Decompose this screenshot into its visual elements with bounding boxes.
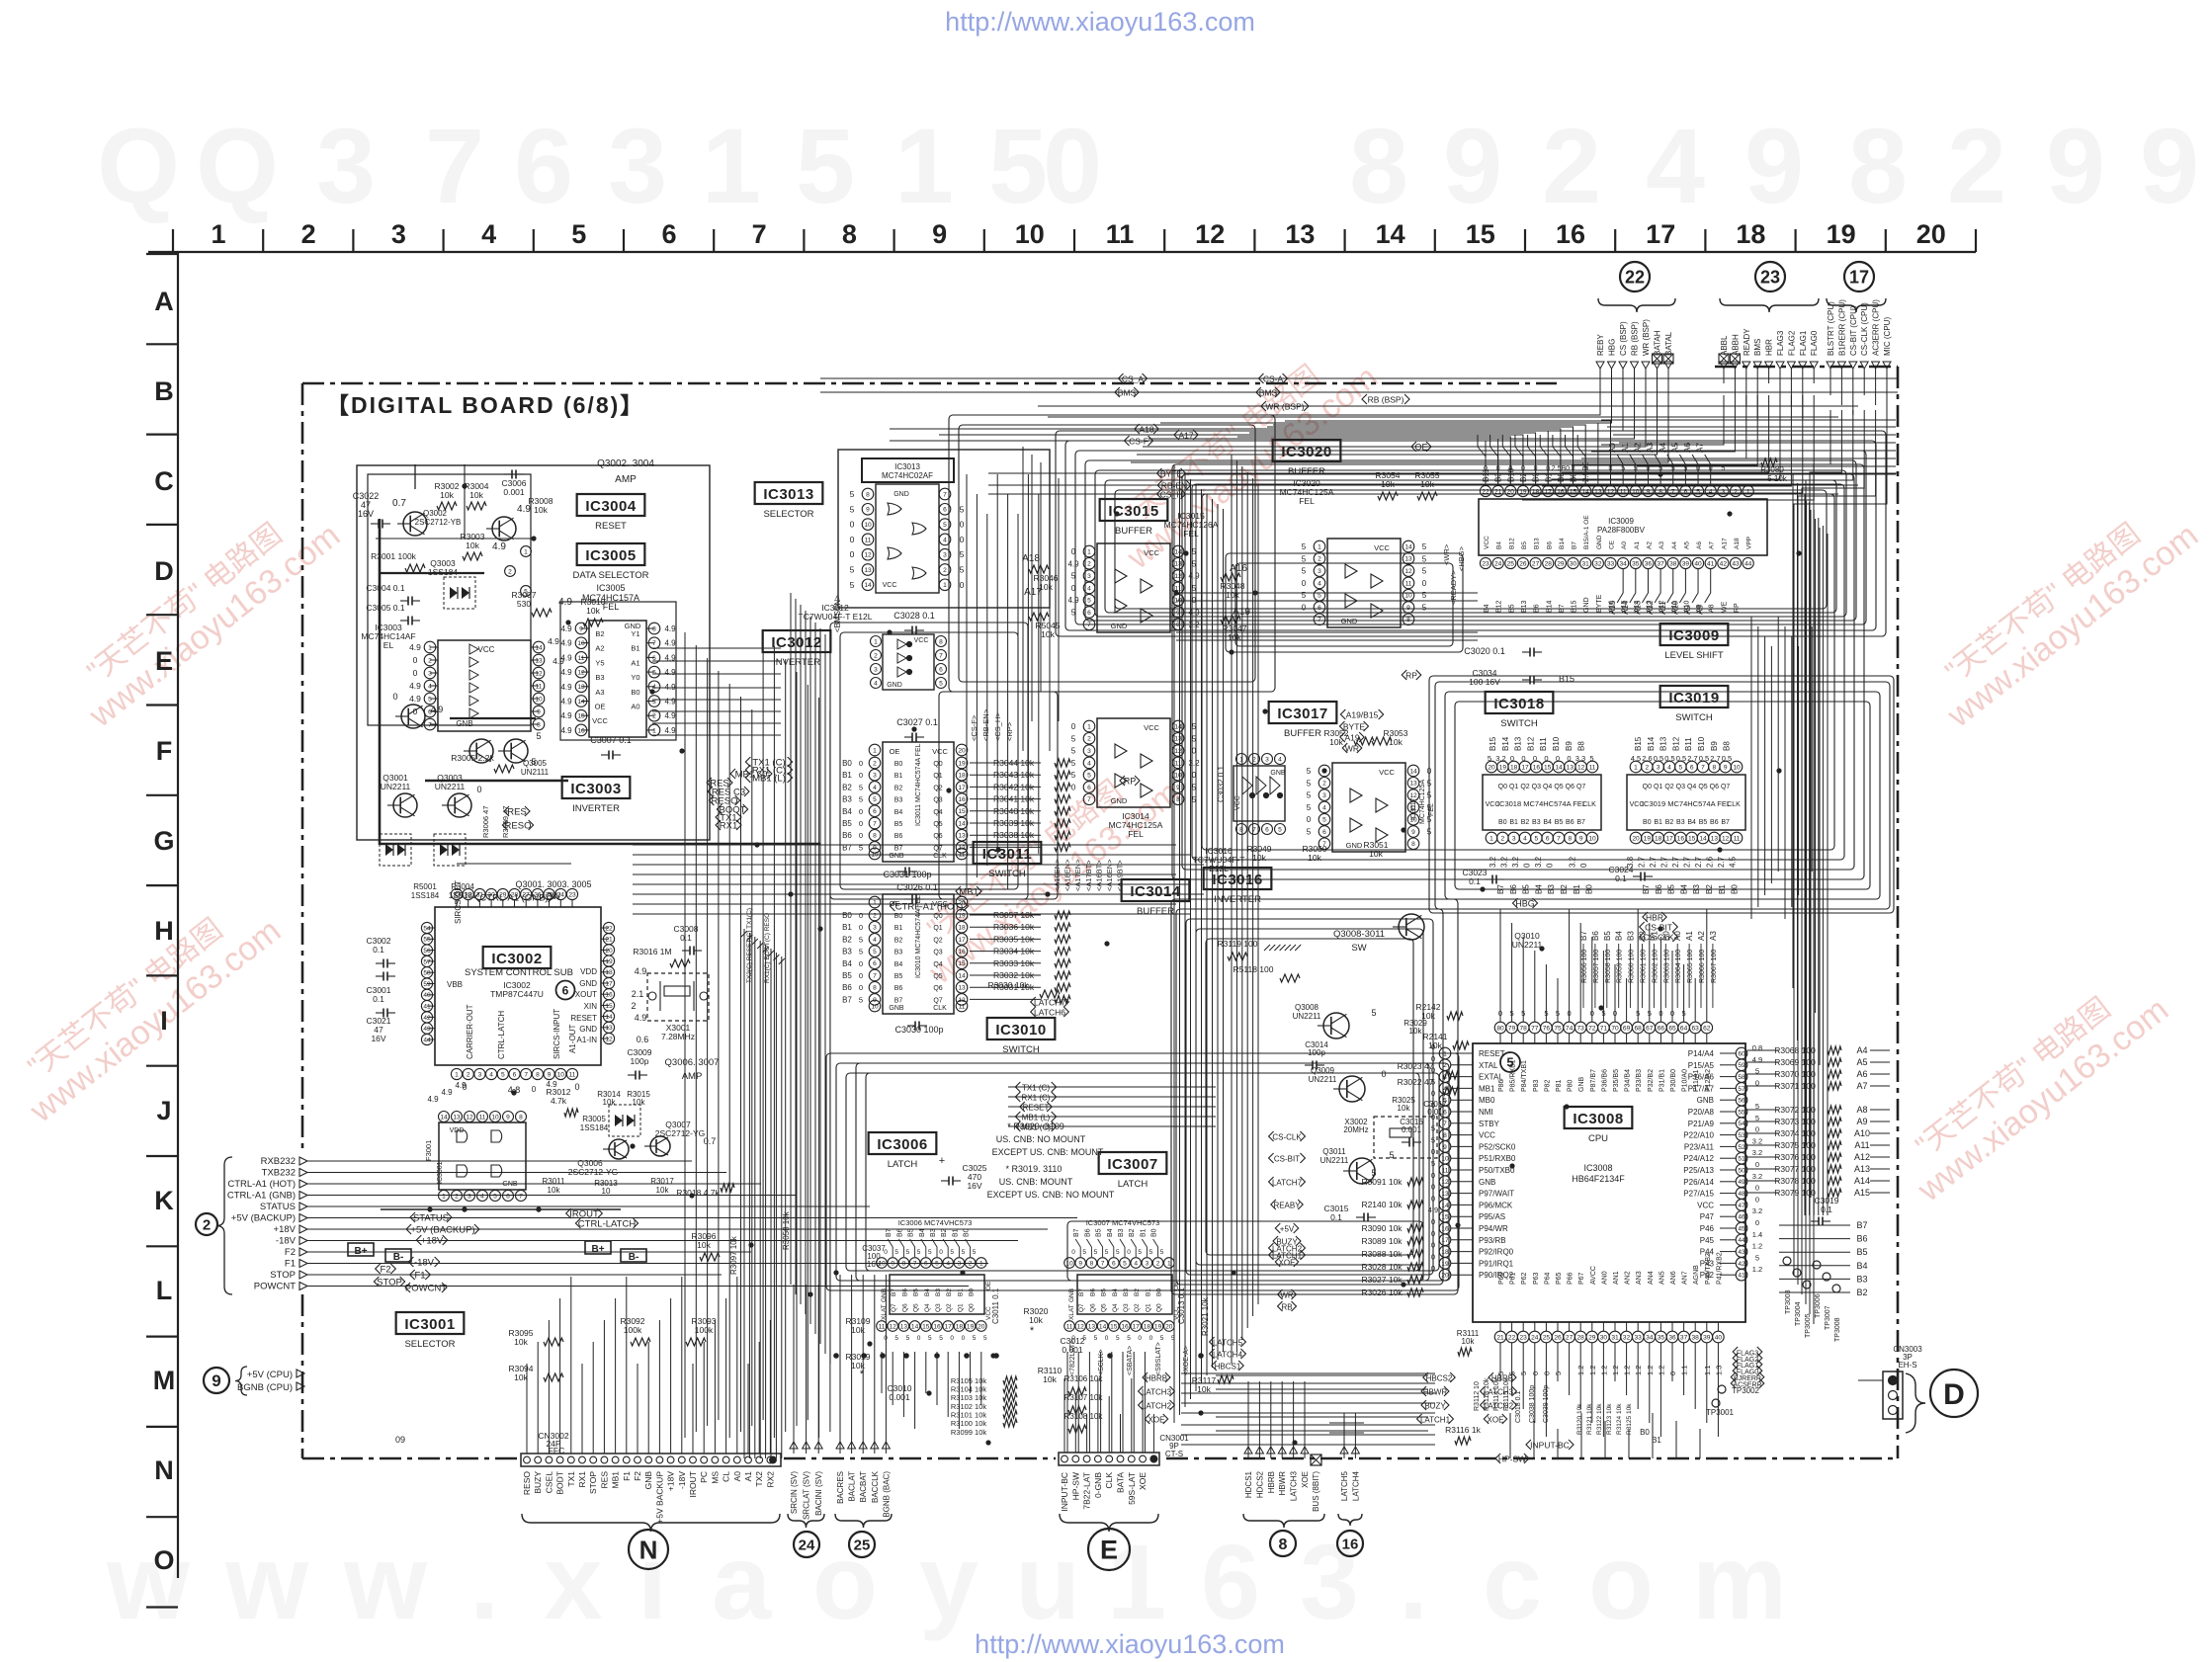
svg-text:R3097 10k: R3097 10k: [729, 1235, 738, 1275]
svg-text:A1: A1: [1634, 541, 1641, 549]
svg-text:7: 7: [1101, 1260, 1105, 1267]
svg-text:F2: F2: [380, 1264, 390, 1275]
svg-text:Q0: Q0: [969, 1303, 976, 1312]
svg-text:3.2: 3.2: [1752, 1172, 1762, 1181]
svg-text:4: 4: [873, 937, 877, 944]
svg-text:CLK: CLK: [1104, 1472, 1114, 1489]
svg-text:63: 63: [1692, 1025, 1700, 1032]
svg-text:3.2: 3.2: [1495, 754, 1505, 763]
svg-text:2.7: 2.7: [1687, 754, 1697, 763]
svg-text:B0: B0: [842, 911, 852, 920]
svg-text:IC3019 MC74HC574A FEL: IC3019 MC74HC574A FEL: [1642, 799, 1731, 808]
svg-text:38: 38: [1669, 560, 1677, 567]
svg-text:B7: B7: [842, 995, 852, 1004]
svg-text:0: 0: [413, 655, 418, 665]
svg-text:4.9: 4.9: [1067, 559, 1079, 568]
svg-text:0: 0: [939, 1249, 943, 1256]
svg-text:B4: B4: [919, 1228, 926, 1237]
svg-text:BATAH: BATAH: [1654, 330, 1662, 356]
svg-text:B1: B1: [1654, 819, 1662, 826]
svg-text:RX2: RX2: [765, 1471, 775, 1488]
svg-text:y: y: [919, 1522, 978, 1641]
svg-text:RESO: RESO: [505, 820, 532, 831]
transistor Q3010: [1399, 914, 1424, 940]
svg-text:19: 19: [1499, 764, 1507, 771]
svg-text:GND: GND: [893, 491, 909, 498]
svg-text:P15/A5: P15/A5: [1688, 1061, 1715, 1070]
svg-text:29: 29: [1557, 560, 1565, 567]
svg-text:9: 9: [866, 507, 870, 514]
svg-text:ACSERR: ACSERR: [1733, 1381, 1761, 1388]
svg-text:C3011 0.1: C3011 0.1: [991, 1288, 1000, 1324]
svg-text:36: 36: [1645, 560, 1653, 567]
svg-text:9: 9: [212, 1371, 220, 1390]
svg-text:B13: B13: [1534, 538, 1541, 549]
svg-text:B4: B4: [842, 807, 852, 816]
label IC3016: [1204, 868, 1272, 889]
svg-text:BACINI (SV): BACINI (SV): [814, 1471, 823, 1516]
svg-text:14: 14: [1174, 723, 1182, 730]
svg-text:2.1: 2.1: [632, 989, 644, 999]
svg-text:MIC (CPU): MIC (CPU): [1883, 317, 1892, 356]
svg-text:B2: B2: [941, 1228, 948, 1237]
svg-text:<A16EN>: <A16EN>: [1105, 859, 1114, 891]
svg-text:2: 2: [1322, 781, 1326, 788]
svg-text:REBY: REBY: [1596, 334, 1605, 356]
svg-text:50: 50: [1738, 1167, 1745, 1174]
connector CN3002: [395, 1277, 781, 1524]
svg-text:FEL: FEL: [1299, 496, 1315, 506]
svg-text:P86: P86: [1498, 1079, 1505, 1092]
svg-text:IC3010 MC74HC574A FEL: IC3010 MC74HC574A FEL: [915, 895, 922, 978]
svg-text:0: 0: [476, 785, 481, 794]
svg-text:0: 0: [960, 580, 965, 590]
svg-text:IC3002: IC3002: [491, 951, 542, 967]
svg-text:MS: MS: [710, 1471, 720, 1484]
svg-text:65: 65: [1668, 1025, 1676, 1032]
transistor Q3001b: [401, 705, 425, 728]
svg-text:2: 2: [467, 1071, 470, 1078]
svg-text:15: 15: [605, 1003, 613, 1010]
svg-text:4.9: 4.9: [455, 1081, 467, 1090]
svg-text:13: 13: [1711, 835, 1719, 842]
label IC3011: [974, 842, 1042, 864]
svg-text:R3058 100: R3058 100: [1605, 950, 1612, 983]
svg-text:0: 0: [1302, 579, 1307, 588]
svg-text:B7: B7: [1576, 819, 1585, 826]
svg-text:0: 0: [962, 1335, 966, 1342]
svg-text:CLK: CLK: [933, 1005, 947, 1012]
svg-text:FEL: FEL: [603, 602, 620, 612]
svg-text:B14: B14: [1647, 736, 1656, 751]
svg-text:6: 6: [506, 1193, 510, 1200]
circled 8: [1270, 1531, 1296, 1556]
svg-text:10k: 10k: [656, 1186, 670, 1195]
svg-text:PA28F800BV: PA28F800BV: [1597, 526, 1646, 535]
svg-text:69: 69: [1623, 1025, 1631, 1032]
svg-text:16: 16: [958, 949, 966, 956]
svg-text:6: 6: [873, 808, 877, 815]
IC3002 left pins: [421, 922, 435, 1044]
watermark pink: [1919, 490, 2205, 735]
svg-text:P60: P60: [1498, 1272, 1505, 1285]
svg-text:B-: B-: [629, 1252, 639, 1263]
svg-text:80: 80: [1496, 1025, 1504, 1032]
svg-text:R3108 10k: R3108 10k: [1064, 1412, 1104, 1421]
svg-text:HBR: HBR: [1765, 339, 1774, 356]
svg-text:0: 0: [1544, 754, 1548, 763]
svg-text:EH-S: EH-S: [1898, 1361, 1916, 1370]
svg-text:14: 14: [535, 644, 543, 651]
svg-text:3.2: 3.2: [1752, 1206, 1762, 1215]
svg-text:34: 34: [1619, 560, 1627, 567]
buffer IC3017 chip: [1307, 763, 1432, 852]
svg-text:2.7: 2.7: [1649, 856, 1658, 868]
svg-text:5: 5: [1302, 554, 1307, 563]
svg-text:INPUT-BC: INPUT-BC: [1060, 1472, 1069, 1512]
svg-text:10k: 10k: [1398, 1104, 1411, 1113]
svg-text:4.9: 4.9: [560, 698, 572, 706]
analog inner box: [368, 474, 531, 725]
svg-text:B5: B5: [894, 973, 903, 980]
svg-text:31: 31: [476, 891, 484, 898]
svg-text:42: 42: [1738, 1261, 1745, 1268]
svg-text:10: 10: [535, 696, 543, 703]
svg-text:3.2: 3.2: [1752, 1148, 1762, 1157]
svg-text:TX2: TX2: [754, 1471, 764, 1487]
svg-text:LATCH4: LATCH4: [1213, 1350, 1243, 1359]
IC3002 top pins: [451, 864, 577, 907]
svg-text:14: 14: [1376, 219, 1405, 249]
watermark pink: [1890, 964, 2175, 1209]
svg-text:CS-A: CS-A: [1263, 374, 1284, 383]
svg-text:6: 6: [1201, 1522, 1260, 1641]
svg-text:RP: RP: [1124, 776, 1137, 786]
svg-text:1: 1: [1489, 835, 1493, 842]
svg-text:B3: B3: [1532, 819, 1541, 826]
svg-text:0: 0: [859, 959, 863, 968]
IC3002 bottom pins: [451, 1068, 577, 1079]
svg-text:5: 5: [1082, 1249, 1086, 1256]
svg-text:INVERTER: INVERTER: [572, 803, 620, 814]
svg-text:5: 5: [1431, 1135, 1435, 1144]
svg-text:0: 0: [1431, 1252, 1435, 1261]
svg-text:5: 5: [906, 1335, 910, 1342]
svg-text:13: 13: [1441, 1191, 1449, 1198]
svg-text:8: 8: [873, 985, 877, 992]
svg-text:P33/B3: P33/B3: [1636, 1069, 1643, 1092]
svg-text:R3066 100: R3066 100: [1699, 950, 1706, 983]
svg-text:TP3001: TP3001: [1706, 1408, 1735, 1417]
svg-text:14: 14: [1699, 835, 1707, 842]
svg-text:5: 5: [873, 949, 877, 956]
svg-text:SW: SW: [1351, 943, 1366, 954]
chevron INPUT-BC: [1526, 1440, 1574, 1450]
svg-text:WR (BSP): WR (BSP): [1265, 401, 1304, 411]
svg-text:B3: B3: [1856, 1274, 1867, 1284]
svg-text:P27/A15: P27/A15: [1683, 1190, 1714, 1199]
svg-text:41: 41: [1738, 1273, 1745, 1280]
switch IC3010 chip: [842, 894, 1070, 1014]
svg-text:4.5: 4.5: [1631, 754, 1641, 763]
svg-text:100k: 100k: [695, 1325, 714, 1335]
svg-text:0: 0: [1071, 1249, 1075, 1256]
thick ground wires: [379, 519, 382, 845]
svg-text:5: 5: [1116, 1335, 1120, 1342]
svg-text:CE: CE: [1609, 540, 1616, 549]
svg-text:66: 66: [1658, 1025, 1665, 1032]
svg-text:6: 6: [939, 666, 943, 673]
svg-text:4: 4: [1443, 1086, 1447, 1093]
svg-text:14: 14: [958, 820, 966, 827]
svg-text:A5: A5: [1856, 1057, 1867, 1067]
svg-text:R3023 47: R3023 47: [1398, 1061, 1434, 1071]
svg-text:15: 15: [1110, 1323, 1118, 1330]
svg-text:TMP87C447U: TMP87C447U: [490, 989, 544, 999]
svg-text:2: 2: [943, 567, 947, 574]
svg-text:x: x: [544, 1522, 603, 1641]
svg-text:SELECTOR: SELECTOR: [404, 1339, 455, 1350]
svg-text:8: 8: [536, 1071, 540, 1078]
svg-text:B1: B1: [894, 925, 903, 932]
svg-text:B6: B6: [842, 983, 852, 992]
chevron OE: [1411, 442, 1431, 452]
svg-text:GNB: GNB: [643, 1471, 653, 1490]
svg-text:B+: B+: [591, 1244, 604, 1255]
svg-text:R3017: R3017: [650, 1177, 674, 1186]
svg-text:8: 8: [902, 1260, 906, 1267]
svg-text:IC3011 MC74HC574A FEL: IC3011 MC74HC574A FEL: [915, 743, 922, 826]
svg-text:Q5: Q5: [933, 973, 942, 980]
circled 17: [1844, 262, 1874, 291]
svg-text:10k: 10k: [534, 505, 548, 515]
svg-text:51: 51: [1738, 1156, 1745, 1163]
svg-text:17: 17: [1521, 764, 1529, 771]
svg-text:8: 8: [1848, 106, 1908, 225]
svg-text:Q2: Q2: [946, 1303, 953, 1312]
svg-text:BUFFER: BUFFER: [1284, 728, 1321, 739]
svg-text:2.7: 2.7: [1638, 856, 1647, 868]
svg-text:58: 58: [1738, 1074, 1745, 1081]
svg-text:12: 12: [1404, 568, 1412, 575]
svg-text:B0: B0: [894, 761, 903, 768]
svg-text:http://www.xiaoyu163.com: http://www.xiaoyu163.com: [945, 7, 1255, 37]
svg-text:GND: GND: [1111, 622, 1128, 630]
svg-text:FEL: FEL: [1183, 529, 1199, 539]
svg-text:Q3: Q3: [1676, 784, 1685, 790]
svg-text:-18V: -18V: [677, 1471, 687, 1489]
svg-text:B5: B5: [1096, 1228, 1103, 1237]
svg-text:5: 5: [928, 1249, 932, 1256]
watermark big digits right: [1349, 106, 2199, 225]
watermark pink: [2, 885, 288, 1130]
svg-text:MB1: MB1: [1479, 1084, 1495, 1093]
svg-text:20: 20: [1165, 1323, 1173, 1330]
svg-text:<WR>: <WR>: [1442, 543, 1451, 565]
svg-text:1: 1: [428, 644, 432, 651]
svg-text:5: 5: [1431, 1077, 1435, 1086]
svg-text:CS_H: CS_H: [1160, 489, 1183, 499]
svg-text:B13: B13: [1514, 736, 1523, 751]
label IC3003: [562, 777, 631, 798]
chevron RESO: [709, 795, 739, 806]
svg-text:0: 0: [960, 535, 965, 544]
svg-text:B6: B6: [1089, 1288, 1096, 1296]
chevron HBG: [1512, 898, 1537, 908]
svg-text:1: 1: [1634, 764, 1638, 771]
svg-text:10: 10: [1015, 219, 1045, 249]
svg-text:RX1: RX1: [577, 1471, 587, 1488]
wire bundle rows K-L: [326, 1161, 1077, 1287]
svg-text:+: +: [939, 1155, 945, 1167]
svg-text:P92/IRQ0: P92/IRQ0: [1479, 1248, 1514, 1257]
svg-text:B7: B7: [891, 1288, 897, 1296]
svg-text:BACCLK: BACCLK: [871, 1470, 880, 1503]
svg-text:19: 19: [1644, 835, 1652, 842]
svg-text:STOP: STOP: [270, 1270, 296, 1281]
svg-text:16: 16: [1677, 835, 1685, 842]
svg-text:Q5: Q5: [913, 1303, 920, 1312]
wire routing loops: [826, 415, 1894, 1294]
svg-text:GNB: GNB: [881, 1288, 888, 1302]
svg-text:14: 14: [911, 1323, 919, 1330]
chevron WR BSP: [1261, 401, 1309, 411]
svg-text:Q3002. 3004: Q3002. 3004: [597, 458, 654, 469]
svg-text:R3067 100: R3067 100: [1711, 950, 1718, 983]
svg-text:B3: B3: [842, 795, 852, 804]
svg-text:C3020 0.1: C3020 0.1: [1464, 646, 1505, 656]
svg-text:4.9: 4.9: [560, 726, 572, 735]
svg-text:5: 5: [973, 1335, 977, 1342]
svg-text:5: 5: [1506, 1055, 1513, 1070]
svg-text:20MHz: 20MHz: [1343, 1125, 1368, 1134]
svg-text:12: 12: [890, 1323, 897, 1330]
svg-text:GND: GND: [887, 682, 902, 689]
svg-text:37: 37: [1680, 1334, 1688, 1341]
svg-text:IC3015: IC3015: [1108, 503, 1158, 520]
svg-text:P82: P82: [1544, 1079, 1551, 1092]
svg-text:14: 14: [440, 1114, 448, 1121]
svg-text:P26/A14: P26/A14: [1683, 1178, 1714, 1187]
svg-text:* R3020. 3109: * R3020. 3109: [1007, 1122, 1064, 1131]
svg-text:5: 5: [859, 948, 863, 956]
svg-text:17: 17: [605, 980, 613, 987]
svg-text:39: 39: [1703, 1334, 1711, 1341]
svg-text:R3001 100k: R3001 100k: [371, 551, 417, 561]
svg-text:P90/IRQ2: P90/IRQ2: [1479, 1271, 1514, 1280]
svg-text:5: 5: [1307, 779, 1312, 788]
svg-text:0.6: 0.6: [637, 1035, 649, 1044]
svg-text:Q1: Q1: [1145, 1303, 1151, 1312]
svg-text:5: 5: [894, 1249, 898, 1256]
svg-text:42: 42: [1720, 560, 1728, 567]
svg-text:10k: 10k: [440, 490, 454, 500]
svg-text:1: 1: [873, 747, 877, 754]
svg-text:41: 41: [1707, 560, 1715, 567]
svg-text:20: 20: [978, 1323, 985, 1330]
svg-text:TP3004: TP3004: [1795, 1301, 1802, 1326]
svg-text:27: 27: [1566, 1334, 1574, 1341]
svg-text:C3028 0.1: C3028 0.1: [893, 611, 935, 621]
svg-text:B4: B4: [1615, 931, 1624, 941]
svg-text:P46: P46: [1700, 1224, 1715, 1233]
svg-text:B7: B7: [1721, 819, 1730, 826]
svg-text:2SC2712-YG: 2SC2712-YG: [655, 1128, 706, 1138]
svg-text:RB: RB: [1281, 1302, 1292, 1311]
svg-text:M: M: [153, 1366, 176, 1395]
svg-text:1.2: 1.2: [1752, 1242, 1762, 1251]
svg-text:* R3019. 3110: * R3019. 3110: [1006, 1164, 1063, 1174]
svg-text:B15/A-1 OE: B15/A-1 OE: [1583, 515, 1590, 549]
svg-text:R3099 10k: R3099 10k: [951, 1428, 987, 1437]
svg-text:HBG: HBG: [1515, 898, 1535, 908]
data selector IC3005 chip: [560, 621, 676, 737]
svg-text:5: 5: [1149, 1249, 1153, 1256]
svg-text:46: 46: [1738, 1214, 1745, 1221]
chevron CS_A: [1118, 374, 1147, 383]
label IC3007: [1099, 1152, 1167, 1174]
svg-text:0: 0: [1431, 1194, 1435, 1203]
svg-text:B2: B2: [1134, 1288, 1141, 1296]
svg-text:0.1: 0.1: [373, 994, 384, 1004]
svg-text:LATCH6: LATCH6: [1034, 1007, 1065, 1017]
svg-text:10k: 10k: [514, 1372, 528, 1382]
svg-text:18: 18: [958, 773, 966, 780]
svg-text:SRCLAT (SV): SRCLAT (SV): [803, 1471, 811, 1520]
svg-text:Y0: Y0: [631, 673, 639, 682]
svg-text:AN7: AN7: [1682, 1271, 1689, 1285]
svg-text:XOE: XOE: [1279, 1258, 1296, 1267]
svg-text:0: 0: [1755, 1125, 1759, 1134]
label IC3005: [577, 543, 645, 565]
svg-text:0: 0: [1431, 1042, 1435, 1051]
svg-text:Q6: Q6: [1710, 784, 1719, 790]
svg-text:B1: B1: [842, 923, 852, 932]
svg-text:11: 11: [1175, 760, 1182, 767]
svg-text:B2: B2: [894, 937, 903, 944]
svg-text:4: 4: [489, 1071, 493, 1078]
svg-text:13: 13: [1174, 561, 1182, 568]
svg-text:TP3008: TP3008: [1834, 1317, 1841, 1342]
svg-text:VCC: VCC: [1486, 801, 1500, 808]
svg-text:BMS: BMS: [1753, 339, 1762, 356]
svg-text:1: 1: [1318, 543, 1321, 550]
svg-text:34: 34: [1646, 1334, 1654, 1341]
svg-text:5: 5: [850, 504, 855, 514]
svg-text:25: 25: [1543, 1334, 1551, 1341]
svg-text:RESO: RESO: [522, 1471, 532, 1495]
chevron RB-EN: [1157, 480, 1191, 490]
svg-text:10k: 10k: [1029, 1315, 1043, 1325]
svg-text:B13: B13: [1521, 600, 1528, 613]
chevron HP-SW: [1495, 1454, 1529, 1463]
svg-text:1: 1: [1443, 1050, 1447, 1057]
svg-text:F1: F1: [414, 1270, 425, 1281]
svg-text:1: 1: [652, 727, 656, 734]
svg-text:OE: OE: [595, 703, 606, 711]
svg-text:1: 1: [1087, 723, 1091, 730]
svg-text:4.9: 4.9: [635, 1013, 647, 1023]
svg-text:5: 5: [950, 1249, 954, 1256]
svg-text:BATAL: BATAL: [1664, 331, 1673, 356]
svg-text:IC3013: IC3013: [894, 462, 920, 471]
svg-text:68: 68: [1635, 1025, 1643, 1032]
svg-text:R3021 10k: R3021 10k: [1201, 1296, 1210, 1336]
svg-text:2SC2712-YB: 2SC2712-YB: [415, 518, 462, 527]
svg-text:P20/A8: P20/A8: [1688, 1108, 1715, 1117]
svg-text:A18: A18: [1734, 538, 1741, 549]
svg-text:3: 3: [958, 1260, 962, 1267]
